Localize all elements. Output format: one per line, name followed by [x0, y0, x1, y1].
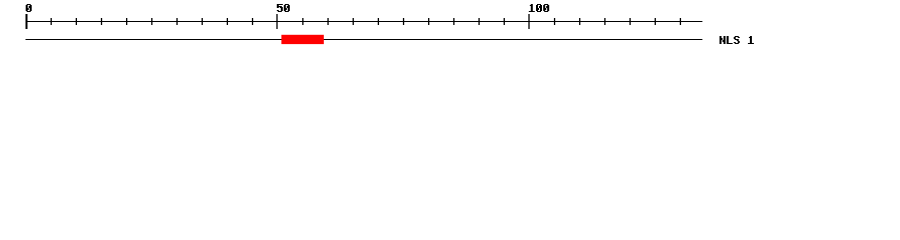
minor ticks: [51, 18, 682, 25]
feature label NLS 1: [720, 36, 754, 44]
ruler line: [26, 21, 703, 22]
major tick 100: [528, 14, 529, 29]
ruler label 100: [529, 4, 549, 12]
sequence line: [26, 39, 703, 40]
ruler label 50: [277, 4, 290, 12]
major tick 50: [276, 14, 277, 29]
feature box NLS 1: [281, 35, 323, 44]
major tick 0: [26, 14, 28, 29]
ruler label 0: [26, 4, 32, 12]
